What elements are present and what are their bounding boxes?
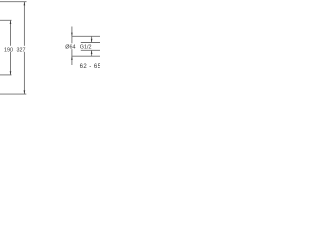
svg-text:G1/2: G1/2 — [80, 45, 92, 51]
svg-text:327: 327 — [17, 47, 26, 53]
svg-text:190: 190 — [4, 47, 13, 53]
svg-text:Ø64: Ø64 — [65, 45, 75, 51]
svg-text:62 - 65: 62 - 65 — [80, 64, 100, 70]
